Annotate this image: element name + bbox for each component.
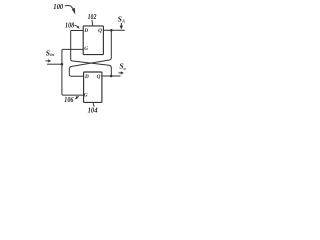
- svg-text:G: G: [84, 93, 88, 99]
- svg-text:102: 102: [88, 12, 97, 21]
- svg-text:A: A: [121, 18, 125, 23]
- arrow from S_A to node A wire: [120, 23, 122, 26]
- latch U102: [83, 26, 103, 55]
- input arrow for S_in: [46, 60, 49, 62]
- leader arrow for 106: [75, 98, 77, 99]
- svg-text:Q: Q: [97, 74, 101, 80]
- leader line for 102: [91, 20, 94, 26]
- svg-text:D: D: [83, 28, 88, 34]
- wire: Q output stub of 102 to node A: [103, 29, 124, 31]
- svg-text:106: 106: [64, 95, 73, 104]
- svg-text:D: D: [84, 74, 89, 80]
- output arrow for S_out: [119, 72, 122, 74]
- svg-text:S: S: [118, 15, 122, 24]
- svg-text:104: 104: [88, 106, 98, 115]
- wire: G input of 102 down left rail to G input of 104: [62, 49, 84, 95]
- junction node on Q stub of 104: [110, 75, 113, 78]
- wire: Q output stub of 104 to S_out: [102, 75, 121, 77]
- leader line for 104: [93, 103, 94, 107]
- svg-text:100: 100: [53, 2, 63, 11]
- latch U104: [84, 72, 102, 102]
- svg-text:o: o: [124, 66, 127, 71]
- leader arrow for 108: [74, 25, 78, 27]
- wire: D input of 102 from node 108 down through cross to bottom Q node: [71, 31, 112, 77]
- svg-text:in: in: [50, 52, 54, 57]
- wire: S_in stub: [47, 63, 62, 65]
- svg-text:Q: Q: [98, 28, 102, 34]
- leader arrow for 100: [65, 5, 73, 8]
- svg-text:108: 108: [65, 21, 74, 30]
- junction node S_in on G rail: [61, 63, 64, 66]
- wire: node A down through cross to D input of 104: [69, 30, 111, 76]
- svg-text:G: G: [84, 46, 88, 52]
- junction node A on Q of 102: [110, 29, 113, 32]
